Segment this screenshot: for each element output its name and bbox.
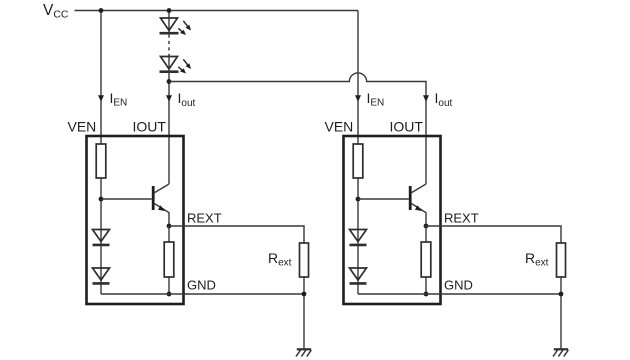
transistor Q1 xyxy=(153,184,169,226)
arrow Iout1 xyxy=(166,95,172,102)
wire VCC to VEN1 pin xyxy=(100,11,102,145)
wire dashed LED string continuation xyxy=(168,35,170,56)
resistor Rext2 xyxy=(557,243,566,277)
svg-text:REXT: REXT xyxy=(187,211,222,226)
IC U1 outline xyxy=(87,136,184,304)
wire ground rail (U2) xyxy=(358,293,561,295)
IC U2 outline xyxy=(344,136,441,304)
svg-text:IOUT: IOUT xyxy=(133,119,167,135)
svg-text:REXT: REXT xyxy=(444,211,479,226)
wire emitter junction to ground rail (U1) xyxy=(168,226,170,294)
LED D2 xyxy=(160,57,192,74)
wire base (U2) xyxy=(358,198,409,200)
diode D3 (U1) xyxy=(93,230,110,245)
node Rext1/GND junction xyxy=(302,292,307,297)
svg-text:IOUT: IOUT xyxy=(390,119,424,135)
node sense/ground junction (U2) xyxy=(424,292,429,297)
node emitter/REXT junction (U1) xyxy=(167,224,172,229)
node Rext2/GND junction xyxy=(559,292,564,297)
diode D6 (U2) xyxy=(350,268,367,283)
node emitter/REXT junction (U2) xyxy=(424,224,429,229)
arrow IEN2 xyxy=(355,95,361,102)
transistor Q2 xyxy=(410,184,426,226)
wire LED bottom to IOUT2 pin with crossover hump xyxy=(169,73,426,184)
wire Rext2 to ground junction xyxy=(560,277,562,349)
resistor enable divider (U2) xyxy=(353,144,363,178)
svg-text:VEN: VEN xyxy=(325,119,354,135)
svg-text:GND: GND xyxy=(187,278,216,293)
wire left branch resistor to ground rail (U2) xyxy=(357,178,359,294)
node base junction (U2) xyxy=(356,197,361,202)
wire VCC rail xyxy=(75,10,359,12)
wire left branch resistor to ground rail xyxy=(100,178,102,294)
resistor sense (U2) xyxy=(421,242,431,277)
resistor sense (U1) xyxy=(164,242,174,277)
node VCC/LED junction xyxy=(167,8,172,13)
node base junction (U1) xyxy=(99,197,104,202)
diode D5 (U2) xyxy=(350,230,367,245)
svg-text:VEN: VEN xyxy=(68,119,97,135)
node LED bottom junction xyxy=(167,79,172,84)
wire REXT pin to external resistor (U2) xyxy=(426,226,561,243)
ground symbol 1 xyxy=(296,349,311,356)
wire VCC to VEN2 pin xyxy=(357,11,359,145)
node VCC/VEN1 junction xyxy=(99,8,104,13)
node sense/ground junction (U1) xyxy=(167,292,172,297)
wire emitter junction to ground rail (U2) xyxy=(425,226,427,294)
wire base (U1) xyxy=(101,198,152,200)
diode D4 (U1) xyxy=(93,268,110,283)
LED D1 xyxy=(160,18,192,35)
wire Rext1 to ground junction xyxy=(303,277,305,349)
arrow IEN1 xyxy=(98,95,104,102)
wire REXT pin to external resistor (U1) xyxy=(169,226,304,243)
arrow Iout2 xyxy=(423,95,429,102)
resistor Rext1 xyxy=(300,243,309,277)
wire LED1 anode stub xyxy=(168,11,170,35)
svg-text:GND: GND xyxy=(444,278,473,293)
wire ground rail (U1) xyxy=(101,293,304,295)
wire LED2 cathode to IOUT1 pin xyxy=(168,55,170,184)
resistor enable divider (U1) xyxy=(96,144,106,178)
ground symbol 2 xyxy=(553,349,568,356)
